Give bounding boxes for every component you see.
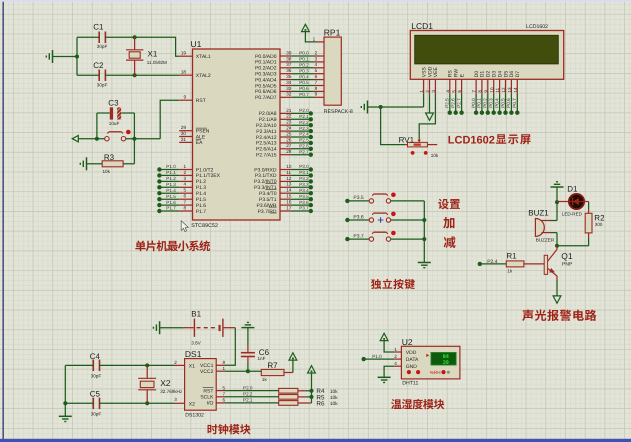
wire U2 VDD net bbox=[384, 341, 394, 352]
svg-text:3.6V: 3.6V bbox=[191, 340, 201, 345]
svg-text:I/O: I/O bbox=[207, 401, 214, 407]
svg-text:18: 18 bbox=[181, 70, 187, 75]
svg-text:17: 17 bbox=[286, 205, 292, 210]
svg-text:10k: 10k bbox=[431, 153, 439, 158]
svg-text:XTAL1: XTAL1 bbox=[196, 54, 211, 60]
svg-text:P2.0: P2.0 bbox=[299, 108, 309, 113]
svg-text:30pF: 30pF bbox=[97, 83, 108, 88]
svg-text:R6: R6 bbox=[316, 400, 325, 407]
lcd display LCD1 (LCD1602) bbox=[410, 21, 563, 94]
svg-text:9: 9 bbox=[315, 92, 318, 97]
svg-text:P2.6: P2.6 bbox=[451, 98, 456, 108]
svg-text:P2.0: P2.0 bbox=[243, 385, 253, 390]
svg-text:P3.3: P3.3 bbox=[299, 182, 309, 187]
svg-text:10k: 10k bbox=[330, 401, 338, 407]
resistor R7 1k bbox=[261, 361, 284, 382]
svg-text:32.768kHz: 32.768kHz bbox=[160, 389, 183, 394]
svg-text:P3.1: P3.1 bbox=[299, 170, 309, 175]
node P0.4 (LCD wire) bbox=[494, 94, 501, 115]
svg-text:2: 2 bbox=[174, 360, 177, 365]
svg-text:2: 2 bbox=[183, 170, 186, 175]
wire DS1 X2 net bbox=[99, 401, 184, 405]
svg-text:P3.0: P3.0 bbox=[299, 164, 309, 169]
svg-text:9: 9 bbox=[483, 90, 488, 93]
node P1.0 bbox=[157, 164, 179, 172]
capacitor C1 30pF bbox=[93, 23, 107, 49]
rtc chip DS1 DS1302 bbox=[174, 349, 225, 418]
svg-text:P1.7: P1.7 bbox=[196, 209, 207, 215]
svg-text:P1.7: P1.7 bbox=[166, 206, 176, 211]
svg-text:P1.0: P1.0 bbox=[372, 354, 382, 359]
svg-text:X2: X2 bbox=[160, 378, 171, 388]
node P2.6 (LCD wire) bbox=[451, 94, 458, 115]
svg-text:DS1302: DS1302 bbox=[185, 412, 204, 418]
potentiometer RV1 10k bbox=[399, 135, 439, 158]
svg-text:1: 1 bbox=[313, 37, 316, 42]
wire XTAL1 net bbox=[77, 35, 179, 56]
svg-text:DHT11: DHT11 bbox=[402, 381, 418, 387]
svg-text:U2: U2 bbox=[402, 337, 413, 347]
svg-text:DS1: DS1 bbox=[185, 349, 202, 359]
cursor cross marker bbox=[378, 217, 384, 223]
wire B1 to DS1 VCC1 bbox=[225, 328, 235, 366]
svg-text:B1: B1 bbox=[191, 309, 201, 318]
svg-text:5: 5 bbox=[451, 90, 456, 93]
wire button to bus bbox=[391, 219, 425, 221]
svg-text:C3: C3 bbox=[108, 98, 119, 107]
svg-text:10uF: 10uF bbox=[109, 121, 120, 126]
svg-text:8: 8 bbox=[315, 86, 318, 91]
svg-text:P2.2: P2.2 bbox=[299, 120, 309, 125]
svg-text:P2.6: P2.6 bbox=[299, 144, 309, 149]
node P2.7 bbox=[291, 149, 313, 157]
svg-text:7: 7 bbox=[315, 80, 318, 85]
svg-text:P0.6: P0.6 bbox=[506, 98, 511, 108]
svg-text:1: 1 bbox=[394, 347, 397, 352]
svg-text:Q1: Q1 bbox=[561, 251, 573, 261]
svg-text:3: 3 bbox=[183, 176, 186, 181]
node P2.1 (DS1302 wire) bbox=[225, 398, 279, 403]
svg-text:LCD1602: LCD1602 bbox=[448, 134, 495, 146]
svg-text:%RH: %RH bbox=[430, 370, 441, 375]
wire buzzer pins to node bbox=[551, 202, 559, 248]
node P0.2 (wire to RP1) bbox=[292, 63, 324, 68]
svg-text:38: 38 bbox=[286, 56, 292, 61]
node P3.6 bbox=[291, 200, 313, 208]
svg-text:26: 26 bbox=[286, 137, 292, 142]
svg-text:RESPACK-8: RESPACK-8 bbox=[324, 109, 353, 115]
svg-text:VCC2: VCC2 bbox=[200, 369, 214, 375]
svg-text:P0.1: P0.1 bbox=[477, 98, 482, 108]
text 温湿度模块 bbox=[391, 399, 444, 409]
node P1.1 bbox=[157, 170, 179, 177]
svg-text:3: 3 bbox=[174, 397, 177, 402]
push button P3.7 bbox=[369, 231, 396, 242]
svg-text:P1.1: P1.1 bbox=[166, 170, 176, 175]
node P1.4 bbox=[157, 188, 179, 196]
svg-text:P1.4: P1.4 bbox=[166, 188, 176, 193]
ground terminal (C4/C5) bbox=[59, 403, 72, 421]
text LCD1602显示屏 bbox=[448, 134, 531, 146]
svg-text:5: 5 bbox=[183, 188, 186, 193]
node P0.0 (LCD wire) bbox=[471, 94, 478, 115]
svg-text:25: 25 bbox=[286, 131, 292, 136]
svg-text:P1.2: P1.2 bbox=[166, 176, 176, 181]
ground terminal (buttons) bbox=[418, 263, 431, 268]
svg-text:84: 84 bbox=[443, 354, 449, 360]
text 单片机最小系统 bbox=[135, 240, 210, 251]
svg-text:R1: R1 bbox=[506, 251, 517, 260]
svg-text:1: 1 bbox=[223, 366, 226, 371]
wire R2 bottom to collector node bbox=[557, 233, 589, 246]
ground terminal (LCD VSS) bbox=[361, 101, 367, 114]
text 减 bbox=[444, 236, 456, 248]
svg-text:P3.7/RD: P3.7/RD bbox=[258, 209, 277, 215]
wire LED anode net bbox=[555, 200, 569, 204]
svg-text:D7: D7 bbox=[515, 71, 521, 78]
push button (reset) bbox=[105, 130, 131, 141]
mcu U1 STC89C52 bbox=[179, 39, 292, 229]
node P2.2 bbox=[291, 120, 313, 128]
node P0.3 (wire to RP1) bbox=[292, 68, 324, 73]
node P1.5 bbox=[157, 194, 179, 202]
svg-text:3: 3 bbox=[431, 90, 436, 93]
svg-text:P2.1: P2.1 bbox=[299, 114, 309, 119]
svg-text:C5: C5 bbox=[90, 390, 101, 399]
svg-text:RST: RST bbox=[196, 98, 206, 104]
svg-text:P3.4: P3.4 bbox=[299, 188, 309, 193]
svg-text:X2: X2 bbox=[189, 401, 195, 407]
node P3.7 bbox=[291, 206, 313, 214]
svg-text:BUZZER: BUZZER bbox=[536, 237, 555, 242]
svg-text:34: 34 bbox=[286, 80, 292, 85]
svg-text:P1.5: P1.5 bbox=[166, 194, 176, 199]
capacitor C3 10uF (electrolytic) bbox=[97, 98, 134, 126]
power terminal (U2 VDD) bbox=[380, 333, 388, 340]
svg-text:P0.7: P0.7 bbox=[299, 92, 309, 97]
svg-text:LCD1602: LCD1602 bbox=[526, 24, 548, 30]
node P2.5 (LCD wire) bbox=[445, 94, 452, 115]
svg-text:29: 29 bbox=[181, 125, 187, 130]
svg-text:4: 4 bbox=[183, 182, 186, 187]
text 加 bbox=[443, 217, 454, 228]
battery B1 3.6V bbox=[184, 309, 236, 345]
svg-text:23: 23 bbox=[286, 120, 292, 125]
svg-text:LCD1: LCD1 bbox=[411, 21, 433, 31]
svg-text:P2.2: P2.2 bbox=[243, 392, 253, 397]
svg-text:P2.4: P2.4 bbox=[299, 132, 309, 137]
capacitor C2 30pF bbox=[93, 61, 107, 88]
svg-text:P0.4: P0.4 bbox=[494, 98, 499, 108]
node P3.6 (button) bbox=[345, 214, 369, 222]
svg-text:37: 37 bbox=[286, 62, 292, 67]
svg-text:30pF: 30pF bbox=[91, 374, 102, 379]
svg-text:1k: 1k bbox=[262, 377, 268, 382]
svg-text:P1.6: P1.6 bbox=[166, 200, 176, 205]
svg-text:C4: C4 bbox=[90, 352, 101, 361]
resistor R5 10k bbox=[279, 394, 339, 401]
node P0.5 (wire to RP1) bbox=[292, 80, 324, 85]
capacitor C5 30pF bbox=[90, 390, 102, 417]
power terminal (reset, left arrow) bbox=[72, 136, 78, 142]
ground terminal (C6) bbox=[241, 322, 254, 327]
capacitor C6 1nF bbox=[241, 328, 270, 372]
ground terminal (R3) bbox=[80, 157, 102, 170]
svg-text:1k: 1k bbox=[507, 268, 513, 273]
svg-text:XTAL2: XTAL2 bbox=[196, 73, 211, 79]
svg-text:6: 6 bbox=[315, 74, 318, 79]
node P0.6 (wire to RP1) bbox=[292, 86, 324, 91]
wire RP1 pin 1 bbox=[305, 32, 324, 42]
transistor Q1 PNP bbox=[544, 246, 573, 281]
svg-text:P0.7: P0.7 bbox=[512, 98, 517, 108]
svg-text:33: 33 bbox=[286, 86, 292, 91]
ground terminal (battery B1) bbox=[153, 321, 183, 334]
crystal X2 32.768kHz bbox=[138, 365, 183, 403]
svg-text:6: 6 bbox=[183, 194, 186, 199]
svg-text:15: 15 bbox=[286, 194, 292, 199]
svg-text:8: 8 bbox=[223, 360, 226, 365]
wire DS1 X1 net bbox=[99, 363, 184, 367]
ground terminal (U2 GND) bbox=[378, 377, 391, 382]
resistor R6 10k bbox=[279, 400, 339, 407]
svg-text:22: 22 bbox=[286, 114, 292, 119]
power terminal (pullups VCC) bbox=[308, 366, 316, 373]
svg-text:10: 10 bbox=[286, 164, 292, 169]
wire button bus bbox=[422, 201, 426, 262]
svg-text:7: 7 bbox=[472, 90, 477, 93]
svg-text:P3.7: P3.7 bbox=[299, 206, 309, 211]
svg-text:2: 2 bbox=[394, 354, 397, 359]
svg-text:P0.2: P0.2 bbox=[483, 98, 488, 108]
node P2.5 bbox=[291, 138, 313, 145]
node P2.1 bbox=[291, 114, 313, 122]
node P2.4 bbox=[291, 132, 313, 140]
node P2.6 bbox=[291, 144, 313, 152]
wire U2 GND net bbox=[384, 366, 394, 377]
svg-text:36: 36 bbox=[286, 68, 292, 73]
node P1.0 (U2 DATA) bbox=[362, 354, 395, 361]
svg-text:14: 14 bbox=[513, 87, 518, 93]
node P2.3 bbox=[291, 126, 313, 134]
svg-text:4: 4 bbox=[394, 361, 397, 366]
svg-text:28: 28 bbox=[286, 149, 292, 154]
svg-text:P2.7: P2.7 bbox=[299, 149, 309, 154]
node P3.7 (button) bbox=[345, 233, 369, 241]
node P0.0 (wire to RP1) bbox=[292, 51, 324, 56]
svg-text:C1: C1 bbox=[93, 23, 104, 32]
wire pullup bus bbox=[306, 373, 314, 403]
svg-text:24: 24 bbox=[286, 126, 292, 131]
text 声光报警电路 bbox=[522, 309, 596, 320]
svg-text:SCLK: SCLK bbox=[200, 395, 214, 401]
svg-text:13: 13 bbox=[286, 182, 292, 187]
svg-text:X1: X1 bbox=[189, 364, 195, 370]
resistor R3 10k bbox=[102, 153, 134, 174]
node P2.0 bbox=[291, 108, 313, 116]
node P0.7 (LCD wire) bbox=[512, 94, 519, 115]
resistor R4 10k bbox=[279, 388, 339, 395]
node P0.6 (LCD wire) bbox=[506, 94, 513, 115]
svg-text:10k: 10k bbox=[330, 395, 338, 401]
svg-text:7: 7 bbox=[183, 200, 186, 205]
wire RV1 left (to ground net) bbox=[381, 107, 406, 145]
svg-text:32: 32 bbox=[286, 92, 292, 97]
svg-text:3: 3 bbox=[315, 56, 318, 61]
svg-text:11.0592M: 11.0592M bbox=[147, 60, 167, 65]
node P1.2 bbox=[157, 176, 179, 183]
node P0.2 (LCD wire) bbox=[483, 94, 490, 115]
node P2.0 (DS1302 wire) bbox=[225, 385, 279, 390]
power terminal (R7 VCC) bbox=[284, 353, 297, 373]
svg-text:21: 21 bbox=[286, 108, 292, 113]
node P1.7 bbox=[157, 206, 179, 214]
svg-text:D1: D1 bbox=[567, 184, 578, 193]
node P3.2 bbox=[291, 176, 313, 183]
node P3.3 bbox=[291, 182, 313, 190]
svg-text:PNP: PNP bbox=[562, 262, 573, 268]
ground terminal (alarm top) bbox=[551, 182, 564, 202]
sensor U2 DHT11 bbox=[394, 337, 460, 387]
svg-text:P2.1: P2.1 bbox=[243, 398, 253, 403]
svg-text:39: 39 bbox=[443, 360, 449, 366]
node P0.3 (LCD wire) bbox=[489, 94, 496, 115]
svg-text:11: 11 bbox=[286, 170, 291, 175]
svg-text:U1: U1 bbox=[191, 39, 202, 49]
svg-text:P1.0: P1.0 bbox=[166, 164, 176, 169]
svg-text:P2.7: P2.7 bbox=[456, 98, 461, 108]
svg-text:P0.7/AD7: P0.7/AD7 bbox=[255, 95, 277, 101]
svg-text:9: 9 bbox=[183, 95, 186, 100]
wire C4/C5 ground vertical bbox=[63, 365, 93, 405]
wire LED to R2 bbox=[584, 202, 589, 214]
svg-text:GND: GND bbox=[406, 364, 418, 370]
svg-text:RST: RST bbox=[203, 388, 213, 394]
svg-text:30pF: 30pF bbox=[97, 44, 108, 49]
svg-text:P0.3: P0.3 bbox=[489, 98, 494, 108]
svg-text:DATA: DATA bbox=[406, 357, 419, 363]
svg-text:12: 12 bbox=[286, 176, 292, 181]
svg-text:P0.2: P0.2 bbox=[299, 63, 309, 68]
resistor R2 300 bbox=[585, 213, 605, 233]
push button P3.5 bbox=[369, 193, 396, 204]
svg-text:P0.1: P0.1 bbox=[299, 57, 309, 62]
svg-text:8: 8 bbox=[478, 90, 483, 93]
power terminal down (LCD VDD) bbox=[426, 94, 434, 121]
push button P3.6 bbox=[369, 212, 396, 223]
svg-text:6: 6 bbox=[223, 398, 226, 403]
svg-text:30pF: 30pF bbox=[91, 412, 102, 417]
ground terminal (crystal caps) bbox=[46, 50, 52, 63]
resistor R1 1k bbox=[506, 251, 544, 273]
svg-text:X1: X1 bbox=[148, 49, 158, 58]
svg-text:P2.5: P2.5 bbox=[445, 98, 450, 108]
svg-text:P0.3: P0.3 bbox=[299, 68, 309, 73]
svg-text:35: 35 bbox=[286, 74, 292, 79]
power terminal down (Q1 emitter) bbox=[553, 281, 561, 304]
svg-text:6: 6 bbox=[457, 90, 462, 93]
node P0.4 (wire to RP1) bbox=[292, 74, 324, 79]
wire LCD VSS net bbox=[368, 94, 424, 109]
svg-text:P2.7/A15: P2.7/A15 bbox=[256, 153, 277, 159]
svg-text:P2.5: P2.5 bbox=[299, 138, 309, 143]
svg-text:10k: 10k bbox=[330, 389, 338, 395]
node P0.7 (wire to RP1) bbox=[292, 92, 324, 97]
svg-text:RP1: RP1 bbox=[324, 28, 341, 38]
svg-text:11: 11 bbox=[495, 87, 500, 92]
svg-text:30: 30 bbox=[181, 131, 187, 136]
node P1.3 bbox=[157, 182, 179, 190]
svg-text:4: 4 bbox=[445, 90, 450, 93]
text 设置 bbox=[438, 199, 460, 209]
svg-text:1: 1 bbox=[183, 164, 186, 169]
mouse cursor bbox=[181, 221, 188, 232]
node P0.5 (LCD wire) bbox=[500, 94, 507, 115]
node P3.5 bbox=[291, 194, 313, 202]
svg-text:12: 12 bbox=[501, 87, 506, 93]
wire reset left net bbox=[78, 113, 104, 141]
svg-text:R3: R3 bbox=[104, 153, 115, 162]
svg-text:27: 27 bbox=[286, 143, 292, 148]
crystal X1 11.0592M bbox=[126, 37, 167, 75]
svg-text:16: 16 bbox=[286, 200, 292, 205]
svg-text:P2.3: P2.3 bbox=[299, 126, 309, 131]
wire reset right / RST net bbox=[126, 100, 180, 164]
svg-text:13: 13 bbox=[507, 87, 512, 93]
svg-text:P0.5: P0.5 bbox=[299, 80, 309, 85]
svg-text:P1.3: P1.3 bbox=[166, 182, 176, 187]
svg-text:C2: C2 bbox=[93, 61, 104, 70]
svg-text:1nF: 1nF bbox=[258, 356, 266, 361]
svg-text:BUZ1: BUZ1 bbox=[528, 209, 549, 218]
wire button to bus bbox=[391, 238, 425, 240]
wire button to bus bbox=[391, 200, 425, 202]
capacitor C4 30pF bbox=[90, 352, 102, 378]
svg-text:P3.2: P3.2 bbox=[299, 176, 309, 181]
svg-text:RV1: RV1 bbox=[399, 135, 415, 144]
svg-text:STC89C52: STC89C52 bbox=[191, 223, 218, 229]
power terminal VCC (RP1 pin 1) bbox=[302, 24, 310, 31]
svg-text:5: 5 bbox=[315, 68, 318, 73]
svg-text:2: 2 bbox=[425, 90, 430, 93]
node P3.0 bbox=[291, 164, 313, 172]
svg-text:300: 300 bbox=[595, 222, 603, 227]
node P2.7 (LCD wire) bbox=[456, 94, 463, 115]
svg-text:4: 4 bbox=[315, 62, 318, 67]
node P3.1 bbox=[291, 170, 313, 177]
led D1 LED-RED bbox=[562, 184, 584, 216]
wire crystal ground net bbox=[53, 37, 80, 75]
node P0.1 (wire to RP1) bbox=[292, 57, 324, 62]
svg-text:7: 7 bbox=[223, 392, 226, 397]
svg-text:2: 2 bbox=[315, 50, 318, 55]
buzzer BUZ1 bbox=[528, 209, 555, 243]
svg-text:10k: 10k bbox=[103, 169, 111, 174]
svg-text:P0.6: P0.6 bbox=[299, 86, 309, 91]
svg-text:LED-RED: LED-RED bbox=[562, 211, 583, 216]
node P2.4 bbox=[478, 259, 507, 266]
svg-text:19: 19 bbox=[181, 51, 187, 56]
svg-text:39: 39 bbox=[286, 50, 292, 55]
svg-text:P0.5: P0.5 bbox=[500, 98, 505, 108]
node P3.5 (button) bbox=[345, 195, 369, 203]
svg-text:P0.0: P0.0 bbox=[471, 98, 476, 108]
resistor pack RP1 RESPACK-8 bbox=[315, 28, 353, 116]
node P3.4 bbox=[291, 188, 313, 196]
node P1.6 bbox=[157, 200, 179, 208]
svg-text:P3.5: P3.5 bbox=[299, 194, 309, 199]
svg-text:8: 8 bbox=[183, 205, 186, 210]
